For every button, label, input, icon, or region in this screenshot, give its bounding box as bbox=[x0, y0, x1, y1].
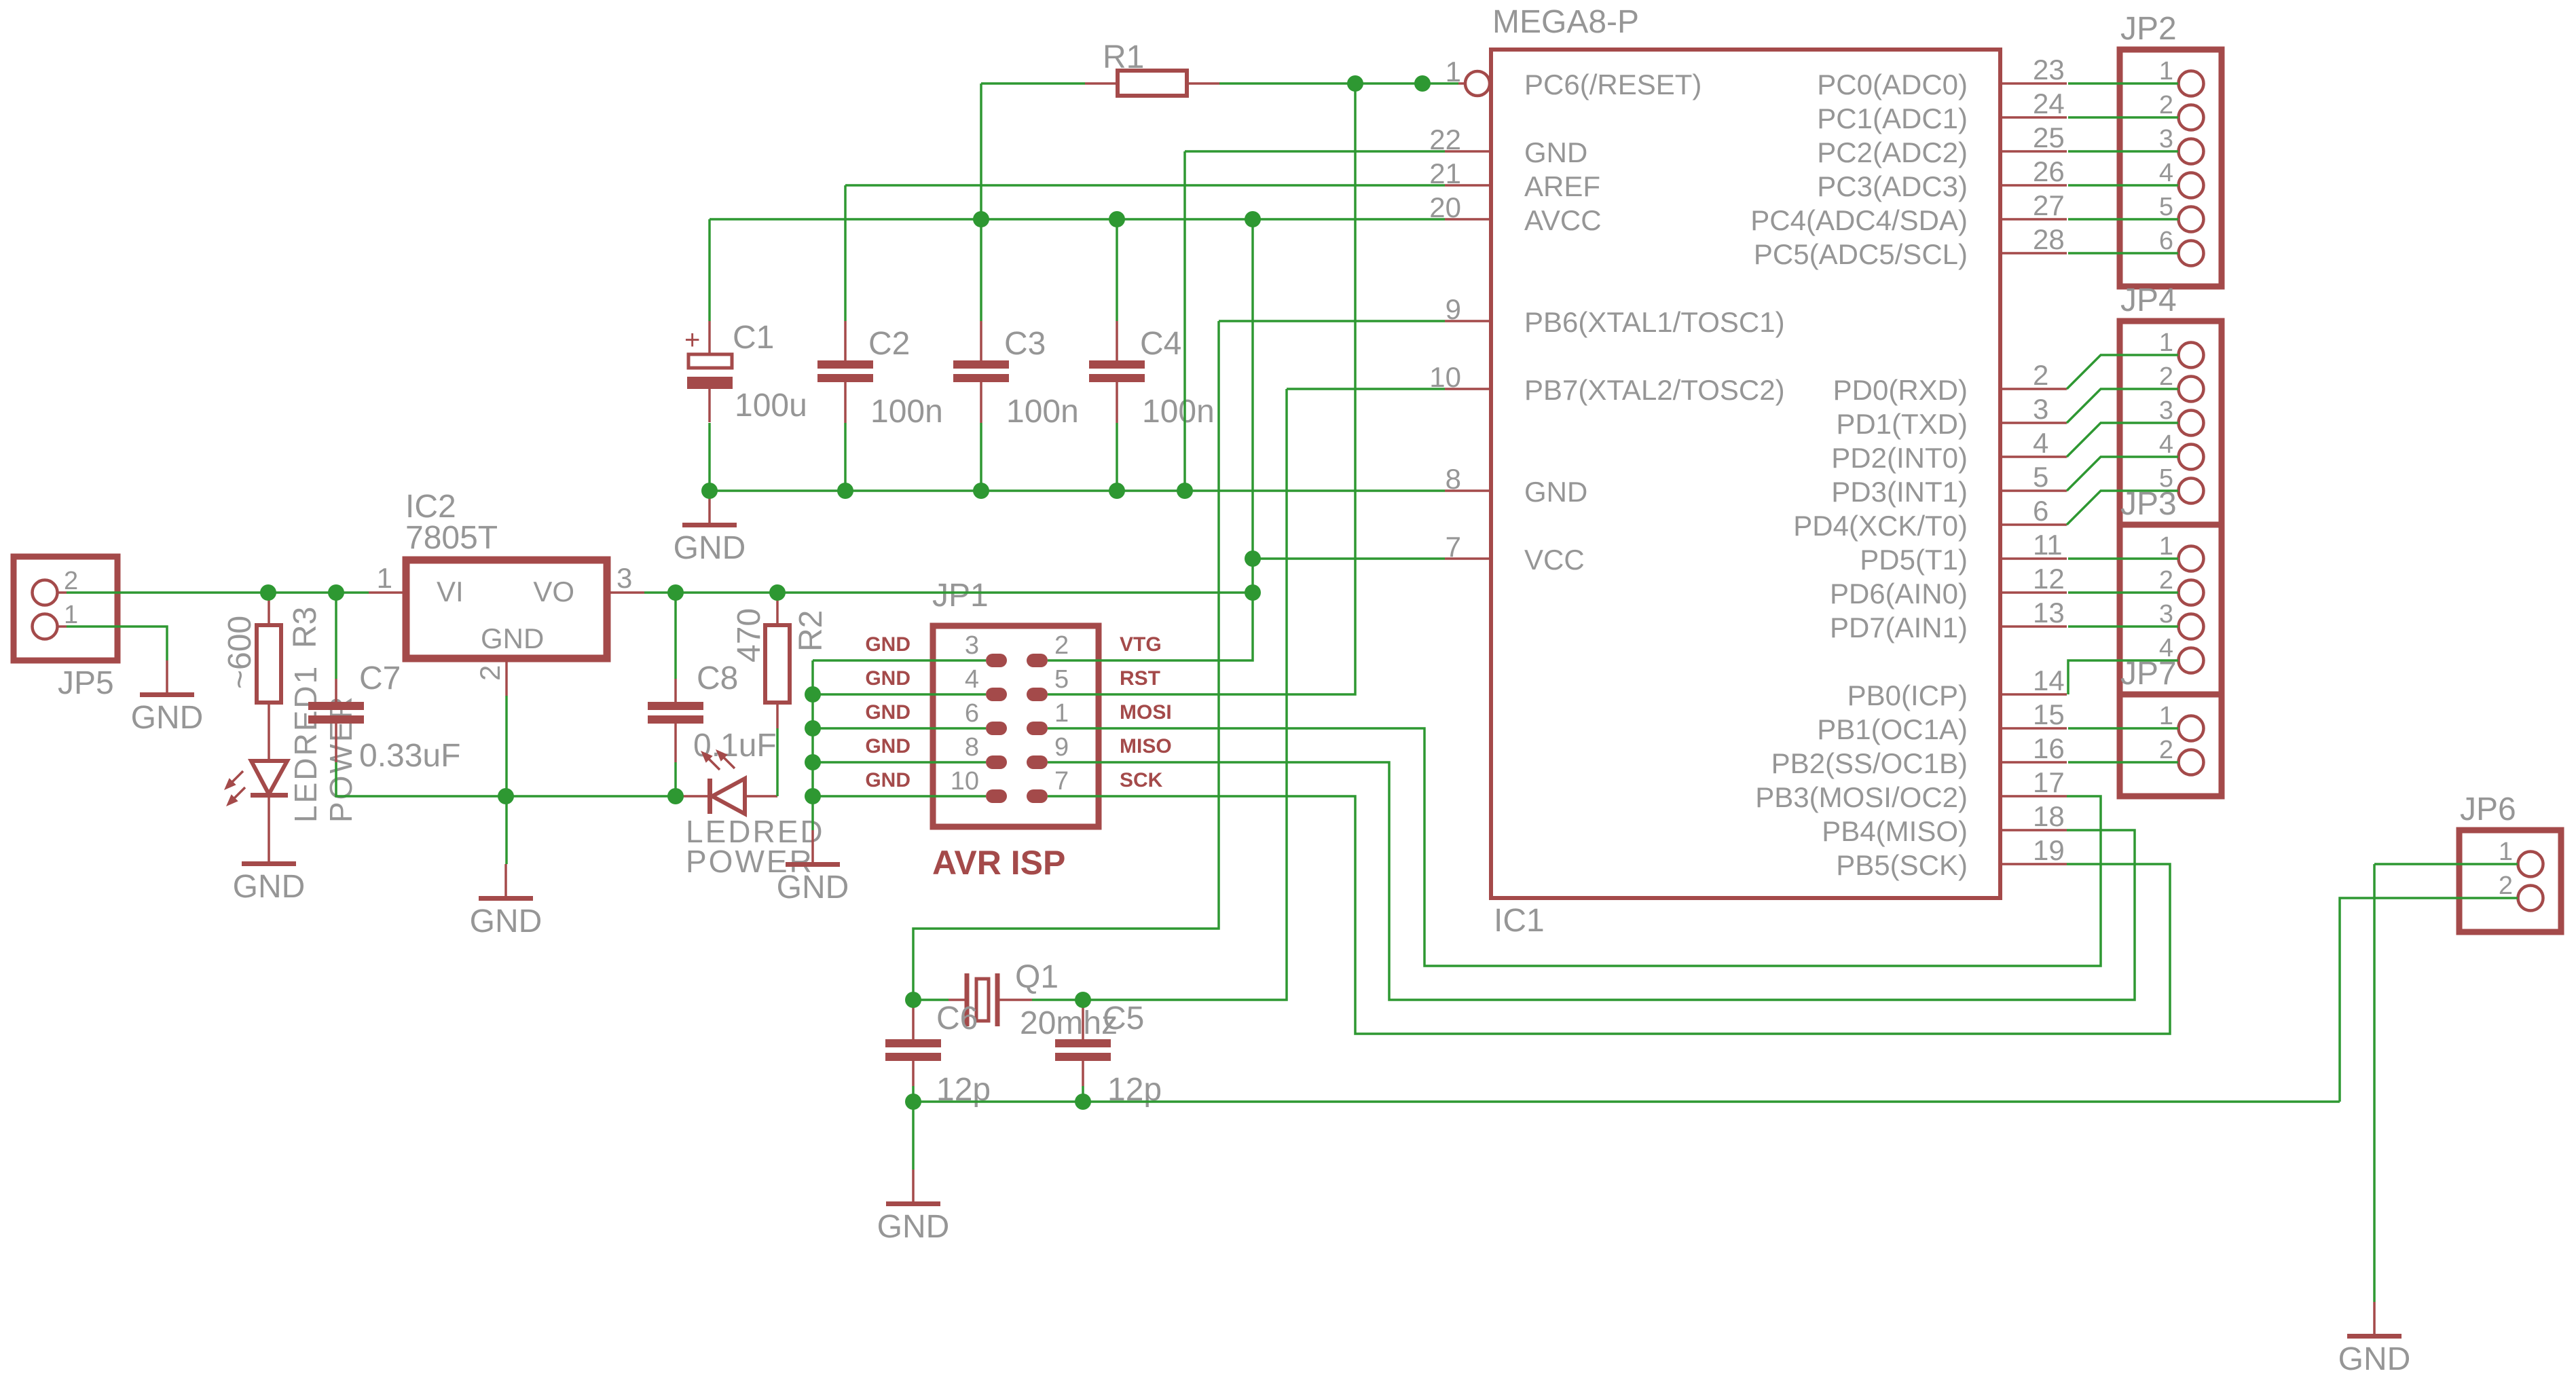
wire PC0 to JP2-1 bbox=[2068, 82, 2178, 85]
svg-text:100n: 100n bbox=[1006, 394, 1079, 430]
wire PB1 to JP7-1 bbox=[2068, 727, 2178, 730]
led LED2 bbox=[676, 749, 777, 814]
wire IC2 GND lead bbox=[505, 696, 508, 864]
pin 4 PD2(INT0) of U1 bbox=[1831, 427, 2067, 474]
pin 1 of JP2 bbox=[2159, 57, 2204, 96]
svg-text:7805T: 7805T bbox=[405, 520, 498, 556]
wire JP5 pin1 to GND bbox=[67, 627, 167, 660]
pin 14 PB0(ICP) of U1 bbox=[1847, 665, 2067, 711]
wire PB2 to JP7-2 bbox=[2068, 761, 2178, 764]
svg-text:PC4(ADC4/SDA): PC4(ADC4/SDA) bbox=[1750, 204, 1968, 236]
wire XTAL1 down to crystal bbox=[913, 321, 1219, 1000]
svg-text:2: 2 bbox=[2159, 362, 2173, 391]
svg-text:PC5(ADC5/SCL): PC5(ADC5/SCL) bbox=[1754, 238, 1968, 270]
node junction (1845,873) bbox=[1245, 584, 1261, 601]
node junction (1745,723) bbox=[1177, 483, 1193, 499]
svg-text:3: 3 bbox=[2159, 125, 2173, 153]
node junction (395,873) bbox=[260, 584, 276, 601]
node junction (1645,323) bbox=[1109, 211, 1125, 227]
svg-text:5: 5 bbox=[2033, 461, 2048, 493]
wire C2 bottom lead bbox=[844, 423, 847, 491]
wire VTG / +5V vertical bbox=[1048, 219, 1253, 660]
svg-text:PB2(SS/OC1B): PB2(SS/OC1B) bbox=[1771, 747, 1968, 779]
wire PD6 to JP3-2 bbox=[2068, 591, 2178, 594]
svg-text:PD3(INT1): PD3(INT1) bbox=[1831, 476, 1968, 508]
pin 2 of JP7 bbox=[2159, 736, 2204, 775]
svg-text:C3: C3 bbox=[1004, 326, 1046, 362]
wire ISP GND row 2 bbox=[813, 693, 986, 696]
crystal Q1 bbox=[949, 973, 1032, 1026]
node junction (1996,123) bbox=[1347, 75, 1363, 92]
svg-text:8: 8 bbox=[965, 733, 979, 762]
svg-text:R3: R3 bbox=[287, 607, 323, 648]
pin 7 VCC of U1 bbox=[1445, 531, 1585, 576]
svg-text:2: 2 bbox=[2033, 359, 2048, 391]
pin 27 PC4(ADC4/SDA) of U1 bbox=[1750, 189, 2067, 236]
wire C1 bottom lead bbox=[708, 423, 711, 491]
svg-text:PD0(RXD): PD0(RXD) bbox=[1833, 374, 1968, 406]
pin 1 of JP7 bbox=[2159, 702, 2204, 741]
svg-text:1: 1 bbox=[2159, 532, 2173, 561]
wire +5V rail from VO bbox=[644, 591, 1253, 594]
svg-text:GND: GND bbox=[2338, 1341, 2411, 1377]
pad pin 2 of JP1 bbox=[1027, 631, 1069, 667]
node junction (1445,323) bbox=[973, 211, 989, 227]
svg-text:10: 10 bbox=[951, 767, 979, 796]
svg-text:23: 23 bbox=[2033, 54, 2065, 86]
pin 28 PC5(ADC5/SCL) of U1 bbox=[1754, 223, 2067, 270]
ground below IC2 bbox=[470, 864, 542, 939]
svg-text:PB5(SCK): PB5(SCK) bbox=[1836, 849, 1968, 881]
svg-text:GND: GND bbox=[865, 667, 910, 690]
pin 17 PB3(MOSI/OC2) of U1 bbox=[1755, 766, 2067, 813]
pin 3 of JP3 bbox=[2159, 600, 2204, 639]
svg-text:11: 11 bbox=[2033, 529, 2063, 561]
pin 1 PC6(/RESET) of U1 bbox=[1446, 56, 1702, 100]
wire PD3 to JP4-4 bbox=[2067, 457, 2178, 491]
svg-text:13: 13 bbox=[2033, 597, 2065, 629]
wire JP6 pin1 bbox=[2374, 863, 2518, 865]
svg-text:GND: GND bbox=[877, 1209, 950, 1245]
node junction (1197,1173) bbox=[805, 788, 821, 804]
wire R2 to LED2 bbox=[776, 728, 779, 796]
svg-text:100n: 100n bbox=[870, 394, 943, 430]
capacitor C4 bbox=[1089, 321, 1145, 423]
svg-text:GND: GND bbox=[470, 903, 542, 939]
wire ISP GND row 4 bbox=[813, 761, 986, 764]
wire C4 bottom lead bbox=[1116, 423, 1118, 491]
svg-text:3: 3 bbox=[2033, 393, 2048, 425]
pin 3 of JP2 bbox=[2159, 125, 2204, 164]
node junction (1845,323) bbox=[1245, 211, 1261, 227]
pin 1 of JP6 bbox=[2499, 838, 2543, 877]
svg-text:4: 4 bbox=[2159, 159, 2173, 187]
pin 9 PB6(XTAL1/TOSC1) of U1 bbox=[1445, 293, 1785, 338]
wire R1/C3 vertical bbox=[980, 83, 982, 321]
pin 2 PD0(RXD) of U1 bbox=[1833, 359, 2067, 406]
wire C4 top lead bbox=[1116, 219, 1118, 321]
wire C1 top lead bbox=[708, 219, 711, 321]
svg-text:GND: GND bbox=[131, 700, 204, 736]
svg-text:POWER: POWER bbox=[323, 694, 358, 823]
pin 2 of JP2 bbox=[2159, 91, 2204, 130]
pin 1 VI of IC2 bbox=[369, 562, 464, 608]
svg-text:5: 5 bbox=[2159, 193, 2173, 221]
svg-text:MISO: MISO bbox=[1120, 735, 1172, 758]
svg-text:1: 1 bbox=[2159, 329, 2173, 357]
svg-text:PD4(XCK/T0): PD4(XCK/T0) bbox=[1793, 510, 1968, 542]
svg-text:AVR ISP: AVR ISP bbox=[932, 844, 1065, 882]
connector JP3 body bbox=[2120, 525, 2222, 694]
pad pin 8 of JP1 bbox=[965, 733, 1007, 769]
svg-text:PD7(AIN1): PD7(AIN1) bbox=[1830, 612, 1968, 643]
node junction (2095,123) bbox=[1414, 75, 1431, 92]
pin 2 of JP3 bbox=[2159, 566, 2204, 605]
wire AVCC bbox=[710, 218, 1445, 221]
svg-text:PC2(ADC2): PC2(ADC2) bbox=[1817, 136, 1968, 168]
svg-text:IC1: IC1 bbox=[1494, 903, 1545, 939]
ground below JP5 bbox=[131, 660, 204, 736]
pad pin 1 of JP1 bbox=[1027, 699, 1069, 735]
wire MOSI bbox=[1048, 728, 2101, 966]
wire PC4 to JP2-5 bbox=[2068, 218, 2178, 221]
connector JP2 body bbox=[2120, 50, 2222, 286]
svg-text:2: 2 bbox=[64, 567, 78, 595]
pin 25 PC2(ADC2) of U1 bbox=[1817, 122, 2067, 168]
svg-text:3: 3 bbox=[965, 631, 979, 660]
svg-text:SCK: SCK bbox=[1120, 769, 1163, 791]
svg-text:5: 5 bbox=[1054, 665, 1069, 694]
svg-text:15: 15 bbox=[2033, 698, 2065, 730]
pin 6 of JP2 bbox=[2159, 227, 2204, 266]
wire AREF bbox=[845, 184, 1445, 187]
svg-text:PD5(T1): PD5(T1) bbox=[1860, 544, 1968, 576]
pin 22 GND of U1 bbox=[1429, 124, 1587, 168]
wire R1 right to pin1 bbox=[1219, 82, 1458, 85]
svg-text:VTG: VTG bbox=[1120, 633, 1162, 656]
svg-text:1: 1 bbox=[2159, 702, 2173, 730]
node junction (1045,723) bbox=[701, 483, 718, 499]
connector JP6 body bbox=[2459, 830, 2561, 932]
svg-text:6: 6 bbox=[2033, 495, 2048, 527]
led LED1 bbox=[224, 761, 288, 863]
pin 2 GND of IC2 bbox=[474, 622, 544, 696]
node junction (1145,873) bbox=[769, 584, 786, 601]
pin 13 PD7(AIN1) of U1 bbox=[1830, 597, 2067, 643]
wire ISP GND row 3 bbox=[813, 727, 986, 730]
svg-text:JP5: JP5 bbox=[58, 665, 114, 701]
wire PD2 to JP4-3 bbox=[2067, 423, 2178, 457]
svg-text:GND: GND bbox=[1524, 136, 1587, 168]
svg-text:PD6(AIN0): PD6(AIN0) bbox=[1830, 578, 1968, 610]
wire C8 bottom lead bbox=[674, 762, 677, 796]
pad pin 7 of JP1 bbox=[1027, 767, 1069, 803]
capacitor C7 bbox=[308, 679, 364, 762]
pin 1 of JP3 bbox=[2159, 532, 2204, 572]
wire PC2 to JP2-3 bbox=[2068, 150, 2178, 153]
node junction (1845,823) bbox=[1245, 550, 1261, 567]
wire C2 top lead bbox=[844, 185, 847, 321]
wire XTAL1 to PB6 bbox=[1219, 320, 1445, 322]
wire SCK bbox=[1048, 796, 2170, 1034]
node junction (1445,723) bbox=[973, 483, 989, 499]
wire crystal left lead bbox=[913, 998, 949, 1001]
svg-text:PD2(INT0): PD2(INT0) bbox=[1831, 442, 1968, 474]
wire PD5 to JP3-1 bbox=[2068, 557, 2178, 560]
pin 4 of JP2 bbox=[2159, 159, 2204, 198]
pin 1 of JP4 bbox=[2159, 329, 2204, 368]
svg-text:JP1: JP1 bbox=[932, 578, 989, 614]
ground below LED1 bbox=[233, 861, 306, 905]
pin 3 VO of IC2 bbox=[533, 562, 644, 608]
pin 1 of JP5 bbox=[33, 601, 79, 639]
svg-text:C2: C2 bbox=[868, 326, 910, 362]
svg-text:PB3(MOSI/OC2): PB3(MOSI/OC2) bbox=[1755, 781, 1968, 813]
svg-text:PC1(ADC1): PC1(ADC1) bbox=[1817, 102, 1968, 134]
svg-text:MOSI: MOSI bbox=[1120, 701, 1172, 724]
pad pin 3 of JP1 bbox=[965, 631, 1007, 667]
wire C5 bottom bbox=[1082, 1086, 1084, 1102]
svg-text:0.33uF: 0.33uF bbox=[359, 738, 460, 774]
svg-text:1: 1 bbox=[2159, 57, 2173, 86]
pin 12 PD6(AIN0) of U1 bbox=[1830, 563, 2067, 610]
pin 6 PD4(XCK/T0) of U1 bbox=[1793, 495, 2067, 542]
pad pin 10 of JP1 bbox=[951, 767, 1007, 803]
svg-text:C7: C7 bbox=[359, 660, 401, 696]
ground below AVR ISP bus bbox=[777, 830, 849, 905]
node junction (1595,1473) bbox=[1075, 992, 1091, 1008]
pin 15 PB1(OC1A) of U1 bbox=[1817, 698, 2067, 745]
pin 23 PC0(ADC0) of U1 bbox=[1817, 54, 2067, 100]
svg-text:2: 2 bbox=[2159, 91, 2173, 119]
wire ISP GND row 1 bbox=[813, 659, 986, 662]
svg-text:PC6(/RESET): PC6(/RESET) bbox=[1524, 69, 1701, 100]
svg-text:+: + bbox=[684, 325, 700, 355]
svg-text:1: 1 bbox=[1054, 699, 1069, 728]
pin 3 of JP4 bbox=[2159, 396, 2204, 436]
svg-text:C4: C4 bbox=[1140, 326, 1181, 362]
svg-text:AVCC: AVCC bbox=[1524, 204, 1602, 236]
svg-text:GND: GND bbox=[481, 622, 544, 654]
svg-text:3: 3 bbox=[2159, 396, 2173, 425]
pin 16 PB2(SS/OC1B) of U1 bbox=[1771, 732, 2067, 779]
node junction (995,873) bbox=[667, 584, 684, 601]
svg-text:2: 2 bbox=[2159, 736, 2173, 764]
svg-text:1: 1 bbox=[377, 562, 392, 594]
wire PD4 to JP4-5 bbox=[2067, 491, 2178, 525]
node junction (995,1173) bbox=[667, 788, 684, 804]
svg-text:2: 2 bbox=[1054, 631, 1069, 660]
svg-text:17: 17 bbox=[2033, 766, 2065, 798]
svg-text:GND: GND bbox=[674, 530, 746, 566]
svg-text:4: 4 bbox=[2033, 427, 2048, 459]
pad pin 5 of JP1 bbox=[1027, 665, 1069, 701]
svg-text:4: 4 bbox=[2159, 430, 2173, 459]
svg-text:14: 14 bbox=[2033, 665, 2065, 696]
svg-text:C5: C5 bbox=[1103, 1001, 1144, 1036]
pin 20 AVCC of U1 bbox=[1429, 191, 1601, 236]
svg-text:27: 27 bbox=[2033, 189, 2065, 221]
pin 5 PD3(INT1) of U1 bbox=[1831, 461, 2067, 508]
svg-text:GND: GND bbox=[1524, 476, 1587, 508]
pin 19 PB5(SCK) of U1 bbox=[1836, 834, 2067, 881]
svg-text:9: 9 bbox=[1446, 293, 1461, 325]
svg-text:19: 19 bbox=[2033, 834, 2065, 866]
resistor R3 bbox=[257, 594, 281, 761]
wire crystal right lead bbox=[1032, 998, 1083, 1001]
svg-text:Q1: Q1 bbox=[1015, 959, 1059, 995]
svg-text:3: 3 bbox=[617, 562, 632, 594]
pin 26 PC3(ADC3) of U1 bbox=[1817, 155, 2067, 202]
svg-text:GND: GND bbox=[865, 701, 910, 724]
pad pin 4 of JP1 bbox=[965, 665, 1007, 701]
svg-text:GND: GND bbox=[865, 735, 910, 758]
svg-text:PB7(XTAL2/TOSC2): PB7(XTAL2/TOSC2) bbox=[1524, 374, 1785, 406]
svg-text:4: 4 bbox=[965, 665, 979, 694]
svg-text:R2: R2 bbox=[793, 610, 829, 652]
pin 24 PC1(ADC1) of U1 bbox=[1817, 88, 2067, 134]
wire GND pin22 vertical bbox=[1183, 151, 1186, 491]
svg-text:26: 26 bbox=[2033, 155, 2065, 187]
wire PC1 to JP2-2 bbox=[2068, 116, 2178, 119]
svg-text:GND: GND bbox=[777, 870, 849, 905]
connector JP7 body bbox=[2120, 694, 2222, 796]
wire JP6 pin2 bbox=[2340, 898, 2518, 1102]
capacitor C8 bbox=[648, 679, 703, 762]
pin 4 of JP3 bbox=[2159, 634, 2204, 673]
wire XTAL2 to PB7 bbox=[1287, 388, 1445, 390]
svg-text:100u: 100u bbox=[735, 388, 807, 424]
svg-text:C1: C1 bbox=[733, 320, 774, 356]
node junction (1345,1473) bbox=[905, 992, 921, 1008]
svg-text:GND: GND bbox=[865, 633, 910, 656]
svg-text:18: 18 bbox=[2033, 800, 2065, 832]
svg-text:28: 28 bbox=[2033, 223, 2065, 255]
wire JP6 pin1 down bbox=[2373, 864, 2376, 1302]
wire PD7 to JP3-3 bbox=[2068, 625, 2178, 628]
svg-text:6: 6 bbox=[2159, 227, 2173, 255]
pin 3 PD1(TXD) of U1 bbox=[1836, 393, 2067, 440]
capacitor C6 bbox=[885, 1007, 941, 1086]
ic IC2 7805T body bbox=[406, 560, 607, 658]
wire PB0 to JP3-4 bbox=[2068, 660, 2178, 694]
wire PD0 to JP4-1 bbox=[2067, 355, 2178, 389]
resistor R1 bbox=[1085, 71, 1219, 96]
svg-text:6: 6 bbox=[965, 699, 979, 728]
node junction (1197,1073) bbox=[805, 720, 821, 736]
pad pin 9 of JP1 bbox=[1027, 733, 1069, 769]
svg-text:AREF: AREF bbox=[1524, 170, 1600, 202]
node junction (1197,1023) bbox=[805, 686, 821, 703]
connector JP4 body bbox=[2120, 321, 2222, 525]
ground below JP6 bbox=[2338, 1302, 2411, 1377]
wire PC3 to JP2-4 bbox=[2068, 184, 2178, 187]
svg-text:JP6: JP6 bbox=[2460, 791, 2516, 827]
svg-text:16: 16 bbox=[2033, 732, 2065, 764]
ground below C1 rail bbox=[674, 491, 746, 566]
svg-text:3: 3 bbox=[2159, 600, 2173, 629]
capacitor C1 (polarized) bbox=[684, 321, 733, 422]
pin 10 PB7(XTAL2/TOSC2) of U1 bbox=[1429, 361, 1784, 406]
connector JP5 body bbox=[14, 557, 117, 660]
svg-text:MEGA8-P: MEGA8-P bbox=[1492, 4, 1639, 40]
svg-text:GND: GND bbox=[233, 869, 306, 905]
pin 5 of JP4 bbox=[2159, 464, 2204, 504]
connector JP1 body bbox=[933, 626, 1099, 827]
wire C7 top lead bbox=[335, 593, 337, 679]
node junction (1595,1623) bbox=[1075, 1094, 1091, 1110]
pin 18 PB4(MISO) of U1 bbox=[1822, 800, 2067, 847]
wire GND pin22 bbox=[1185, 150, 1445, 153]
svg-text:VCC: VCC bbox=[1524, 544, 1585, 576]
pin 2 of JP5 bbox=[33, 567, 79, 605]
pad pin 6 of JP1 bbox=[965, 699, 1007, 735]
wire C3 bottom lead bbox=[980, 423, 982, 491]
svg-text:PB1(OC1A): PB1(OC1A) bbox=[1817, 713, 1968, 745]
capacitor C5 bbox=[1055, 1007, 1111, 1086]
node junction (1645,723) bbox=[1109, 483, 1125, 499]
pin 5 of JP2 bbox=[2159, 193, 2204, 232]
pin 11 PD5(T1) of U1 bbox=[1860, 529, 2067, 576]
svg-text:8: 8 bbox=[1446, 463, 1461, 495]
svg-text:VI: VI bbox=[437, 576, 464, 608]
svg-text:470: 470 bbox=[731, 608, 767, 662]
pin 4 of JP4 bbox=[2159, 430, 2204, 470]
wire MISO bbox=[1048, 762, 2135, 1000]
svg-text:PB4(MISO): PB4(MISO) bbox=[1822, 815, 1968, 847]
wire RST net bbox=[1048, 83, 1355, 694]
svg-text:VO: VO bbox=[533, 576, 574, 608]
svg-text:PD1(TXD): PD1(TXD) bbox=[1836, 408, 1968, 440]
wire XTAL2 down to crystal bbox=[1083, 389, 1287, 1000]
svg-text:PC0(ADC0): PC0(ADC0) bbox=[1817, 69, 1968, 100]
wire C6 bottom bbox=[912, 1086, 915, 1102]
node junction (1345,1623) bbox=[905, 1094, 921, 1110]
svg-text:24: 24 bbox=[2033, 88, 2065, 119]
wire GND rail to pin8 bbox=[710, 489, 1445, 492]
svg-text:25: 25 bbox=[2033, 122, 2065, 153]
wire C8 top lead bbox=[674, 593, 677, 679]
svg-text:PB0(ICP): PB0(ICP) bbox=[1847, 679, 1968, 711]
svg-text:LEDRED1: LEDRED1 bbox=[288, 665, 323, 823]
svg-text:JP2: JP2 bbox=[2120, 11, 2177, 47]
wire VCC pin7 bbox=[1253, 557, 1445, 560]
svg-text:1: 1 bbox=[2499, 838, 2513, 866]
svg-text:2: 2 bbox=[474, 665, 506, 681]
wire ISP GND row 5 bbox=[813, 795, 986, 798]
svg-text:PB6(XTAL1/TOSC1): PB6(XTAL1/TOSC1) bbox=[1524, 306, 1785, 338]
svg-text:12: 12 bbox=[2033, 563, 2065, 595]
svg-text:RST: RST bbox=[1120, 667, 1160, 690]
wire oscillator GND rail bbox=[913, 1100, 2340, 1103]
wire RESET to R1 left bbox=[981, 82, 1085, 85]
pin 21 AREF of U1 bbox=[1429, 157, 1600, 202]
pin 8 GND of U1 bbox=[1445, 463, 1587, 508]
wire GND rail bottom bbox=[336, 762, 676, 796]
node junction (1197,1123) bbox=[805, 754, 821, 770]
node junction (1245,723) bbox=[837, 483, 853, 499]
svg-text:100n: 100n bbox=[1142, 394, 1215, 430]
ic U1 MEGA8-P body bbox=[1491, 50, 2000, 898]
svg-text:R1: R1 bbox=[1103, 39, 1144, 75]
ground below crystal bbox=[877, 1102, 950, 1245]
wire VIN from JP5 to IC2 bbox=[67, 591, 369, 594]
svg-text:7: 7 bbox=[1446, 531, 1461, 563]
svg-text:9: 9 bbox=[1054, 733, 1069, 762]
node junction (745,1173) bbox=[498, 788, 514, 804]
svg-text:PC3(ADC3): PC3(ADC3) bbox=[1817, 170, 1968, 202]
resistor R2 bbox=[765, 594, 790, 728]
